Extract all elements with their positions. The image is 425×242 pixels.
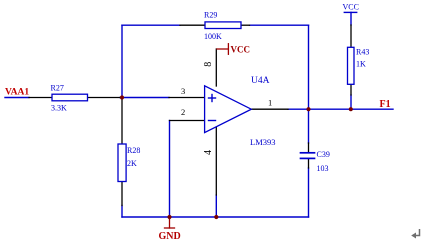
- svg-text:2K: 2K: [127, 159, 137, 168]
- svg-text:1K: 1K: [356, 60, 366, 69]
- svg-text:R28: R28: [127, 146, 140, 155]
- svg-text:3.3K: 3.3K: [51, 104, 67, 113]
- svg-text:2: 2: [181, 107, 185, 117]
- svg-text:VCC: VCC: [343, 3, 359, 12]
- svg-text:4: 4: [203, 150, 214, 155]
- svg-text:R29: R29: [204, 11, 217, 20]
- svg-text:VAA1: VAA1: [5, 88, 29, 98]
- svg-text:R27: R27: [51, 84, 64, 93]
- svg-text:R43: R43: [356, 48, 369, 57]
- svg-text:VCC: VCC: [231, 44, 251, 54]
- svg-text:1: 1: [268, 98, 272, 108]
- svg-text:3: 3: [181, 86, 185, 96]
- svg-text:GND: GND: [159, 231, 181, 242]
- svg-text:U4A: U4A: [251, 76, 270, 86]
- svg-text:8: 8: [203, 62, 214, 67]
- svg-text:100K: 100K: [204, 32, 222, 41]
- svg-text:F1: F1: [380, 99, 391, 110]
- svg-text:103: 103: [317, 164, 329, 173]
- svg-text:LM393: LM393: [250, 137, 276, 147]
- svg-text:C39: C39: [317, 150, 330, 159]
